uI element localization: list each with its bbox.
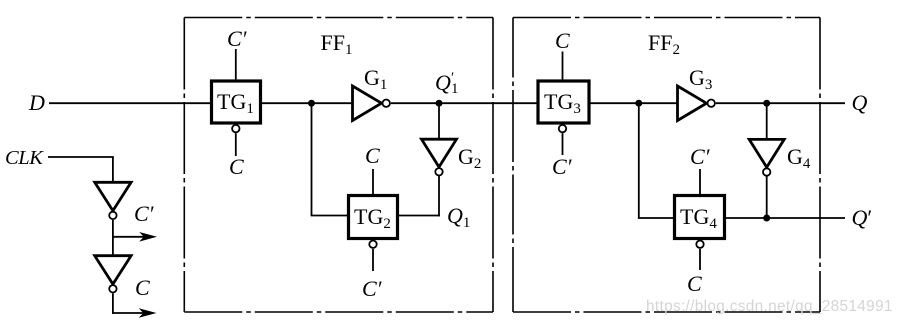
svg-text:C′: C′ xyxy=(227,26,248,51)
svg-text:C: C xyxy=(135,275,150,300)
wire C branch with arrow xyxy=(112,308,157,318)
wire TG3 output to G3 xyxy=(589,102,678,104)
wire G2 output down xyxy=(438,176,440,217)
svg-text:Q: Q xyxy=(435,70,451,95)
svg-text:1: 1 xyxy=(451,81,459,97)
wire TG1 bottom to C xyxy=(235,133,237,156)
svg-text:C′: C′ xyxy=(134,201,155,226)
svg-text:C: C xyxy=(687,271,702,296)
inverter G2 (pointing down) xyxy=(422,139,457,175)
svg-text:C′: C′ xyxy=(362,276,383,301)
svg-text:C: C xyxy=(365,143,380,168)
wire G1 output to TG3 xyxy=(391,102,538,104)
node junction dot at TG1 output xyxy=(308,100,315,107)
dashed box FF2 xyxy=(513,18,820,313)
label Q1' xyxy=(435,70,459,97)
wire TG2 bottom to C' xyxy=(372,249,374,271)
wire from second inverter down xyxy=(112,293,114,314)
transmission gate TG3 xyxy=(538,81,589,123)
inverter CLK first (C' generator) xyxy=(95,182,131,219)
wire D input xyxy=(49,102,211,104)
inverter G3 xyxy=(678,86,715,121)
wire feedback vertical left FF2 xyxy=(638,103,640,218)
inverter G1 xyxy=(353,86,390,121)
node junction dot at TG3 output xyxy=(635,100,642,107)
wire TG3 bottom to C' xyxy=(562,133,564,155)
wire feedback to TG4 input xyxy=(638,217,674,219)
wire C to TG3 top xyxy=(562,52,564,82)
wire Q down to G4 xyxy=(766,103,768,140)
node Q1' junction dot xyxy=(436,100,443,107)
wire TG1 output to G1 xyxy=(261,102,353,104)
wire G3 output to Q xyxy=(716,102,845,104)
wire C' to TG1 top xyxy=(235,49,237,81)
svg-text:Q′: Q′ xyxy=(852,205,873,230)
inverter CLK second (C generator) xyxy=(95,256,131,293)
wire C to TG2 top xyxy=(372,169,374,196)
wire feedback to TG2 input xyxy=(311,215,348,217)
svg-text:CLK: CLK xyxy=(5,147,44,169)
wire C' branch with arrow xyxy=(113,232,157,242)
transmission gate TG1 xyxy=(212,81,261,123)
node Q' junction dot xyxy=(763,215,770,222)
svg-text:C: C xyxy=(229,154,244,179)
wire CLK horizontal xyxy=(48,156,114,158)
inverter G4 (pointing down) xyxy=(749,139,784,175)
bubble TG4 bottom xyxy=(696,241,703,248)
wire from first inverter down xyxy=(112,220,114,256)
wire feedback vertical left FF1 xyxy=(311,103,313,215)
wire TG4 bottom to C xyxy=(699,249,701,270)
svg-text:https://blog.csdn.net/qq_28514: https://blog.csdn.net/qq_28514991 xyxy=(646,298,893,315)
transmission gate TG2 xyxy=(349,196,398,239)
svg-text:Q: Q xyxy=(852,90,868,115)
svg-text:C′: C′ xyxy=(690,144,711,169)
bubble TG2 bottom xyxy=(369,241,376,248)
wire Q1 horizontal to TG2 output xyxy=(398,215,440,217)
wire Q1' down to G2 xyxy=(438,103,440,139)
transmission gate TG4 xyxy=(675,196,725,239)
bubble TG3 bottom xyxy=(559,125,566,132)
dashed box FF1 xyxy=(184,18,493,313)
svg-text:C′: C′ xyxy=(552,154,573,179)
wire C' to TG4 top xyxy=(699,169,701,196)
wire G4 output down xyxy=(766,176,768,219)
svg-text:C: C xyxy=(555,28,570,53)
wire CLK down to inverter xyxy=(112,157,114,183)
node Q junction dot xyxy=(763,100,770,107)
bubble TG1 bottom xyxy=(232,125,239,132)
wire TG4 output to Q' xyxy=(725,217,846,219)
svg-text:D: D xyxy=(28,90,45,115)
